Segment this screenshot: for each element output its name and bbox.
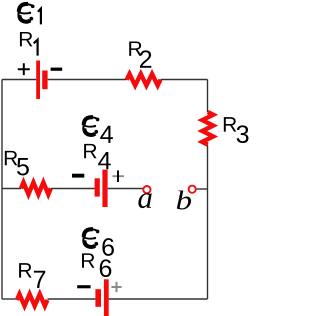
terminal b (189, 186, 196, 193)
battery E4 short plate (95, 178, 100, 196)
wire left vertical (1, 80, 3, 300)
resistor R5 (21, 182, 51, 194)
battery E4 long plate (102, 170, 107, 207)
battery E6 short plate (95, 289, 101, 307)
label R2 subscript 2 (140, 50, 151, 67)
label R3 subscript 3 (237, 125, 249, 143)
label E4 subscript 4 (100, 126, 113, 143)
battery E4 plus sign (112, 170, 124, 182)
wire top left segment (2, 79, 36, 81)
wire middle left segment (2, 188, 21, 190)
label emf E4 (83, 117, 99, 135)
battery E4 minus sign (72, 174, 84, 178)
label R1 subscript 1 (34, 40, 38, 56)
wire middle center segment (51, 188, 95, 190)
label R5 subscript 5 (17, 158, 29, 175)
label node a (138, 193, 151, 208)
battery E6 long plate (104, 279, 109, 316)
label R5 (5, 151, 17, 165)
resistor R7 (17, 294, 48, 306)
label R3 (224, 117, 236, 131)
battery E6 plus sign (111, 282, 121, 292)
wire top middle segment (48, 79, 127, 81)
wire middle to terminal a (108, 188, 143, 190)
label emf E6 (83, 229, 99, 247)
label node b (177, 190, 191, 209)
battery E1 long plate (36, 61, 40, 100)
label emf E1 (19, 4, 35, 22)
wire terminal b to right (197, 188, 208, 190)
wire bottom middle segment (47, 298, 95, 300)
label R7 (19, 263, 31, 277)
wire top right segment (161, 79, 208, 81)
resistor R3 (202, 112, 213, 145)
battery E1 minus sign (51, 68, 63, 71)
label E1 subscript 1 (38, 9, 41, 25)
wire right lower (207, 145, 209, 299)
label R2 (129, 41, 141, 55)
label R6 subscript 6 (100, 259, 112, 277)
label R1 (20, 32, 32, 46)
battery E1 plus sign (18, 63, 30, 75)
label R7 subscript 7 (34, 271, 45, 288)
label R4 (84, 144, 96, 158)
label R6 (82, 253, 94, 267)
resistor R2 (127, 74, 161, 86)
label R4 subscript 4 (98, 152, 111, 169)
terminal a (143, 186, 150, 193)
battery E6 minus sign (77, 285, 90, 288)
wire bottom left segment (2, 298, 17, 300)
battery E1 short plate (42, 71, 47, 90)
label E6 subscript 6 (102, 238, 114, 256)
wire right upper (207, 80, 209, 113)
wire bottom right segment (109, 298, 208, 300)
